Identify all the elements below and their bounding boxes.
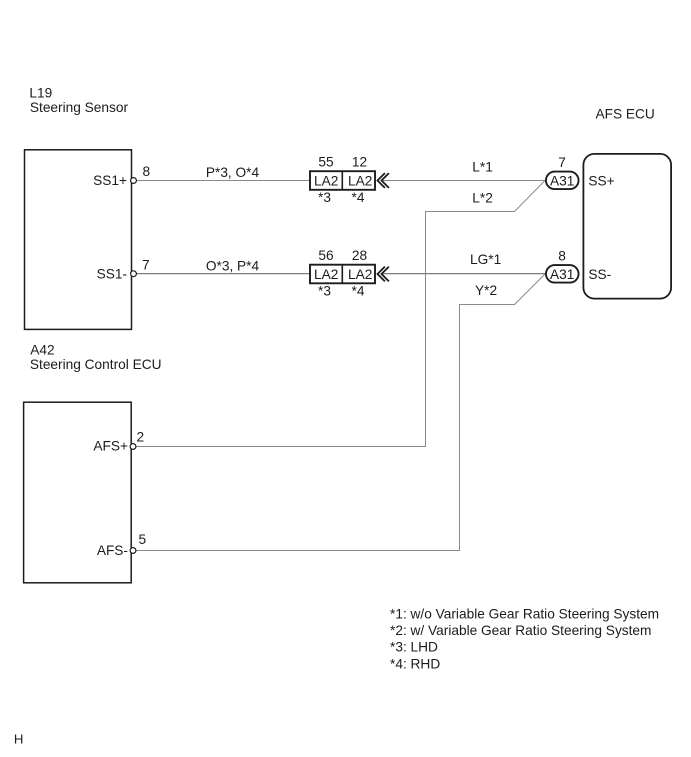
wire Y*2 AFS- to A31 pin8 (136, 274, 545, 551)
svg-text:8: 8 (143, 164, 151, 179)
chevron arrow row2 (378, 267, 389, 282)
svg-text:28: 28 (352, 248, 368, 263)
svg-text:H: H (14, 732, 24, 747)
svg-text:SS1+: SS1+ (93, 173, 127, 188)
svg-text:L*2: L*2 (472, 191, 493, 206)
svg-text:AFS+: AFS+ (93, 439, 128, 454)
svg-text:O*3, P*4: O*3, P*4 (206, 259, 260, 274)
steering control ECU box A42 (24, 402, 132, 583)
oval connector A31 pin8 (546, 265, 579, 283)
svg-text:*3: *3 (318, 190, 331, 205)
svg-text:A42: A42 (30, 343, 54, 358)
svg-text:Steering Sensor: Steering Sensor (30, 100, 129, 115)
wire SS1+ to LA2 connector (136, 180, 310, 182)
connector divider row1 (341, 171, 343, 191)
svg-text:LA2: LA2 (314, 267, 338, 282)
pin circle AFS- pin5 (130, 548, 136, 554)
svg-text:7: 7 (142, 258, 150, 273)
svg-text:56: 56 (318, 248, 334, 263)
svg-text:A31: A31 (550, 267, 574, 282)
svg-text:LA2: LA2 (348, 174, 372, 189)
svg-text:L*1: L*1 (472, 160, 493, 175)
svg-text:AFS-: AFS- (97, 543, 128, 558)
AFS ECU box (583, 154, 671, 299)
svg-text:*2: w/ Variable Gear Ratio Ste: *2: w/ Variable Gear Ratio Steering Syst… (390, 623, 651, 638)
svg-text:55: 55 (318, 155, 334, 170)
svg-text:A31: A31 (550, 173, 574, 188)
svg-text:LA2: LA2 (314, 174, 338, 189)
pin circle SS1- pin7 (131, 271, 137, 277)
svg-text:*4: RHD: *4: RHD (390, 657, 440, 672)
wire L*1 LA2 to A31 pin7 (381, 180, 545, 182)
pin circle SS1+ pin8 (131, 178, 137, 184)
svg-text:LG*1: LG*1 (470, 252, 501, 267)
svg-text:*4: *4 (352, 284, 365, 299)
svg-text:SS+: SS+ (588, 173, 614, 188)
svg-text:Steering Control ECU: Steering Control ECU (30, 357, 162, 372)
wire SS1- to LA2 connector (136, 273, 310, 275)
svg-text:12: 12 (352, 155, 367, 170)
wire LG*1 LA2 to A31 pin8 (381, 273, 545, 275)
svg-text:P*3, O*4: P*3, O*4 (206, 165, 260, 180)
svg-text:AFS ECU: AFS ECU (596, 107, 655, 122)
svg-text:*1: w/o Variable Gear Ratio St: *1: w/o Variable Gear Ratio Steering Sys… (390, 607, 659, 622)
connector LA2/LA2 row 1 (310, 171, 375, 283)
svg-text:*4: *4 (352, 190, 365, 205)
wire L*2 AFS+ to A31 pin7 (136, 181, 545, 447)
pin circle AFS+ pin2 (130, 444, 136, 450)
oval connector A31 pin7 (546, 172, 579, 190)
steering sensor box L19 (25, 150, 132, 330)
connector divider row2 (341, 265, 343, 285)
svg-text:2: 2 (137, 430, 145, 445)
svg-text:SS-: SS- (588, 267, 611, 282)
svg-text:8: 8 (558, 249, 566, 264)
svg-text:SS1-: SS1- (97, 266, 127, 281)
chevron arrow row1 (378, 173, 389, 188)
svg-text:*3: *3 (318, 284, 331, 299)
svg-text:*3: LHD: *3: LHD (390, 640, 438, 655)
svg-text:Y*2: Y*2 (475, 283, 497, 298)
svg-text:7: 7 (558, 155, 566, 170)
svg-text:LA2: LA2 (348, 267, 372, 282)
svg-text:5: 5 (139, 532, 147, 547)
svg-text:L19: L19 (29, 86, 52, 101)
